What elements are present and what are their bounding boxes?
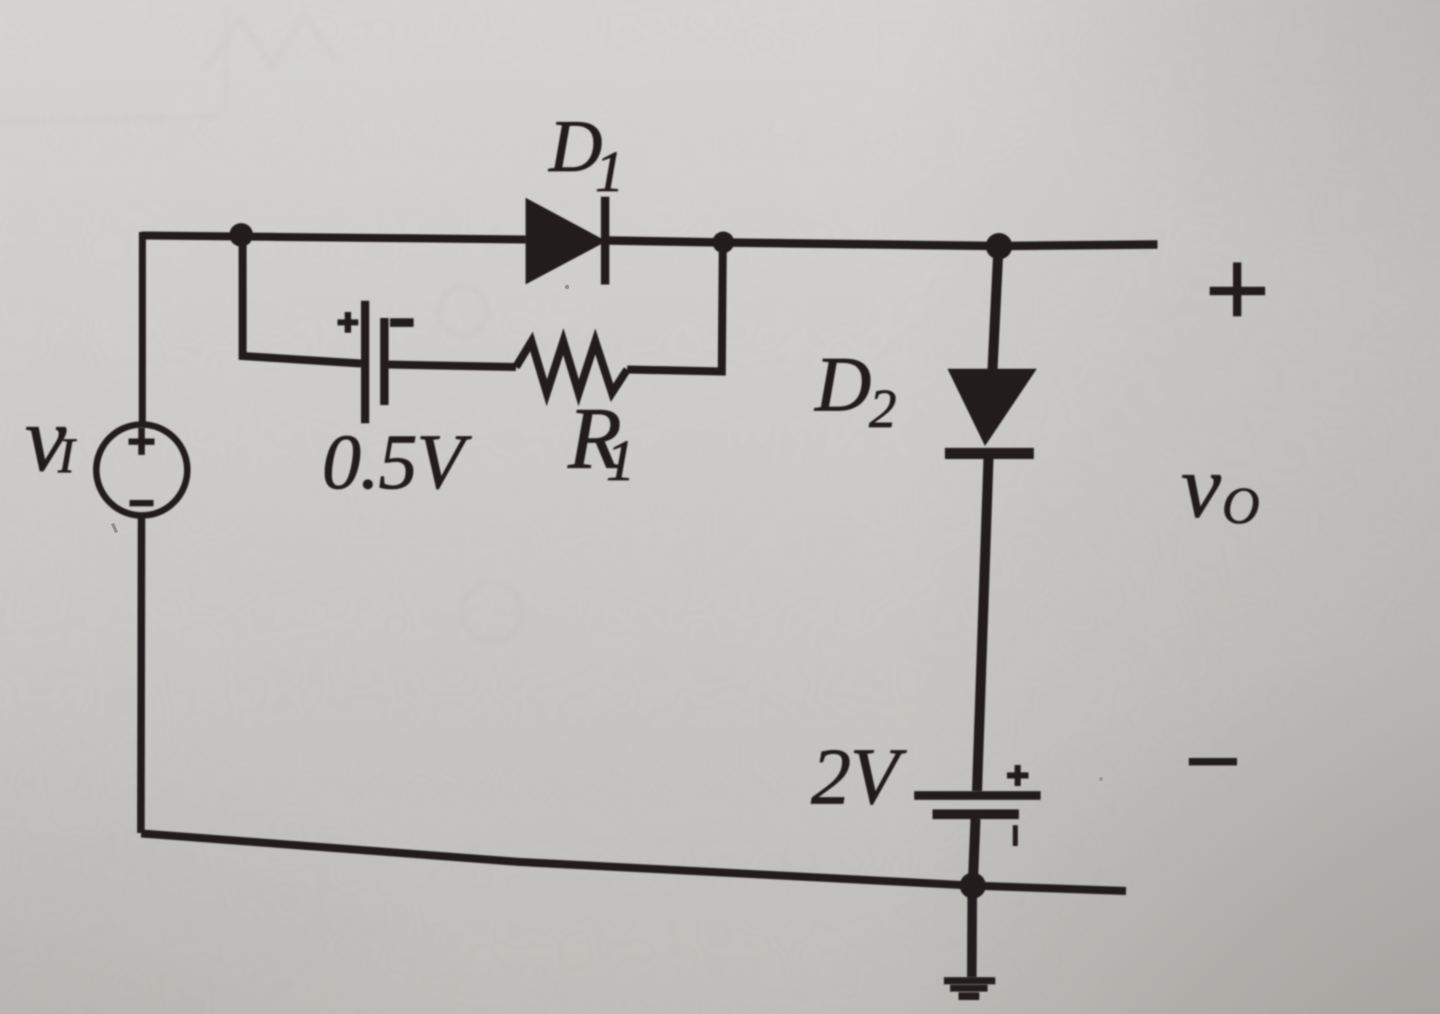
diode D1 [526,197,610,285]
output terminal + [1210,262,1265,316]
resistor R1 [516,342,627,393]
wire: source bottom to bottom-left corner [137,519,145,834]
wire: junction C down to D2 anode [993,246,999,370]
label + (battery 0.5V polarity) [338,312,359,333]
ground [944,977,995,1000]
node: junction B (D1 cathode / R1 branch) [713,232,735,254]
node: junction A (top-left) [229,223,253,247]
wire: top horizontal (D1 cathode to right end) [609,241,1158,247]
svg-text:I: I [57,427,77,483]
wire: top-left corner horizontal (source to D1 anode) [142,236,526,240]
wire: bottom horizontal (source bottom corner to right end) [141,834,1126,892]
svg-text:1: 1 [606,428,635,493]
wire: left vertical (top corner down to source top) [139,232,146,422]
wire: bottom junction down to ground [967,885,977,977]
wire: D2 cathode down to battery 2V [977,458,989,791]
wire: battery 2V down to bottom junction [973,819,976,885]
diode D2 [945,369,1037,459]
svg-text:2: 2 [869,378,897,439]
label − (battery 2V polarity) [1013,825,1018,846]
wire: branch down from junction A [243,238,361,364]
output terminal − [1189,758,1237,765]
battery 2V [914,791,1040,819]
wire: battery 0.5V to resistor R1 [389,365,517,368]
svg-text:2V: 2V [811,734,907,822]
svg-text:v: v [1181,438,1221,537]
battery 0.5V [361,301,389,424]
label − (battery 0.5V polarity) [390,318,414,327]
svg-text:0.5V: 0.5V [322,418,473,505]
svg-text:1: 1 [595,139,624,204]
node: junction C (top, D2 branch) [986,233,1012,259]
voltage source vI [96,425,187,516]
svg-text:D: D [814,341,871,428]
wire: resistor to junction B (right, then up) [627,244,723,372]
label + (battery 2V polarity) [1007,765,1029,786]
node: junction D (bottom) [960,873,986,899]
svg-text:O: O [1222,478,1260,535]
